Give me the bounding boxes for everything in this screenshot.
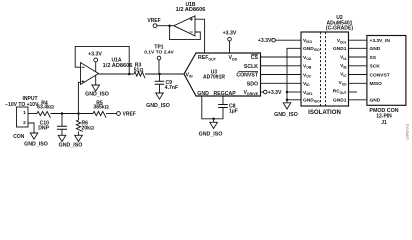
svg-text:+3.3V: +3.3V (258, 38, 272, 44)
wire GND1 to GND (349, 47, 367, 49)
resistor R5 365k (93, 100, 109, 117)
adc U3 AD7091R (184, 53, 261, 97)
svg-text:CONVST: CONVST (236, 73, 258, 79)
wire R5 to VREF terminal (106, 113, 117, 115)
svg-text:GND_ISO: GND_ISO (146, 103, 170, 109)
wire U1B feedback loop (170, 26, 201, 40)
wire CON pin 1 to R4 (28, 113, 37, 115)
wire SDO to VID (261, 82, 302, 84)
wire SCLK to VOB (261, 65, 302, 67)
svg-text:GND_ISO: GND_ISO (85, 91, 109, 97)
power +3.3V at VISO (258, 38, 301, 44)
svg-text:J1: J1 (381, 120, 387, 126)
svg-text:SCK: SCK (370, 64, 381, 70)
svg-text:SDO: SDO (247, 81, 258, 87)
svg-text:1µF: 1µF (229, 108, 238, 114)
svg-text:+3.3V: +3.3V (223, 30, 237, 36)
svg-text:+3.3V: +3.3V (88, 51, 102, 57)
wire VIB to SCK (349, 65, 367, 67)
svg-text:REGCAP: REGCAP (214, 91, 237, 97)
wire VIA to SS (349, 56, 367, 58)
wire U1B +input to REFOUT (195, 19, 205, 53)
op-amp U1B 1/2 AD8606 (174, 2, 206, 36)
svg-text:CS: CS (251, 55, 259, 61)
node VREF terminal (117, 112, 136, 118)
svg-text:1: 1 (23, 110, 26, 116)
capacitor C10 DNP (38, 114, 67, 136)
svg-text:MISO: MISO (370, 81, 383, 87)
wire U1A feedback loop (75, 46, 129, 74)
ground GND_ISO at C10 (58, 135, 66, 141)
node B junction (77, 112, 80, 115)
node VREF terminal at U1B (147, 18, 160, 28)
wire VREF to U1B output (157, 24, 174, 27)
ground GND_ISO at R6 (59, 135, 83, 148)
svg-text:CONVST: CONVST (370, 72, 390, 78)
test point TP1 (144, 45, 174, 76)
op-amp U1A 1/2 AD8606 (81, 57, 133, 84)
svg-text:51Ω: 51Ω (134, 67, 144, 73)
svg-text:GND_ISO: GND_ISO (24, 142, 48, 148)
svg-text:ISOLATION: ISOLATION (308, 109, 341, 116)
wire R3 to VIN of U3 (145, 73, 184, 75)
wire GND1 to GND lower (349, 99, 367, 101)
svg-text:VREF: VREF (147, 18, 160, 24)
power +3.3V at U3 VDD (223, 30, 237, 53)
svg-text:4.7nF: 4.7nF (165, 85, 178, 91)
resistor R4 63.4k (37, 100, 54, 117)
power +3.3V at VDRIVE (261, 90, 283, 96)
svg-text:VREF: VREF (123, 112, 136, 118)
wire R4 to node A to node B to R5 (51, 113, 94, 115)
svg-text:(C-GRADE): (C-GRADE) (326, 26, 353, 32)
wire CON pin 2 to ground (28, 123, 34, 133)
input label (5, 96, 39, 108)
capacitor C8 1uF and GND/REGCAP wires (202, 96, 238, 122)
svg-text:2: 2 (23, 120, 26, 126)
svg-text:GND: GND (197, 91, 209, 97)
power +3.3V at U1A (88, 51, 102, 71)
resistor R3 51ohm (134, 63, 145, 79)
svg-text:CON: CON (13, 134, 25, 140)
svg-text:1/2 AD8606: 1/2 AD8606 (176, 7, 206, 13)
svg-text:63.4kΩ: 63.4kΩ (37, 105, 54, 111)
svg-text:1/2 AD8606: 1/2 AD8606 (103, 63, 133, 69)
svg-text:GND_ISO: GND_ISO (59, 142, 83, 148)
wire VDD1 to +3.3V_IN (349, 39, 367, 41)
wire CONVST to VOC (261, 74, 302, 76)
connector J1 PMOD (367, 36, 406, 126)
svg-text:GND1: GND1 (333, 98, 347, 104)
wire RCOUT stub (349, 91, 358, 93)
isolator U2 ADuM5401 (301, 15, 353, 106)
svg-text:DNP: DNP (38, 126, 49, 132)
wire GNDISO net of U2 (286, 48, 301, 103)
svg-text:SS: SS (370, 55, 377, 61)
isolation barrier dashed lines (308, 32, 341, 116)
ground GND_ISO at CON (24, 133, 48, 148)
svg-text:GND1: GND1 (333, 46, 347, 52)
resistor R6 20k (76, 114, 94, 136)
svg-text:20kΩ: 20kΩ (82, 126, 94, 132)
wire U1A output to R3 (99, 73, 135, 76)
connector CON (13, 107, 28, 140)
ground GND_ISO at U2 (274, 103, 298, 118)
ground GND_ISO at U1A (85, 75, 109, 97)
wire node B up to U1A +input (78, 82, 80, 113)
node A junction (61, 112, 64, 115)
wire VIC to CONVST (349, 74, 367, 76)
svg-text:GND: GND (370, 98, 381, 104)
svg-text:GND_ISO: GND_ISO (199, 131, 223, 137)
ground GND_ISO at C9 (146, 93, 170, 109)
wire CS to VOA (261, 56, 302, 58)
svg-text:10973-001: 10973-001 (406, 124, 410, 140)
svg-text:GND_ISO: GND_ISO (274, 112, 298, 118)
svg-text:GND: GND (370, 46, 381, 52)
svg-text:365kΩ: 365kΩ (93, 105, 108, 111)
svg-text:+3.3V_IN: +3.3V_IN (370, 38, 391, 44)
wire VOD to MISO (349, 82, 367, 84)
svg-text:AD7091R: AD7091R (203, 75, 225, 81)
svg-text:12-PIN: 12-PIN (376, 113, 392, 119)
svg-text:0.1V TO 2.4V: 0.1V TO 2.4V (144, 50, 174, 56)
ground GND_ISO at U3 (199, 122, 223, 137)
figure number (406, 124, 410, 140)
capacitor C9 4.7nF (155, 74, 178, 93)
svg-text:SCLK: SCLK (244, 64, 258, 70)
svg-text:+3.3V: +3.3V (268, 90, 282, 96)
